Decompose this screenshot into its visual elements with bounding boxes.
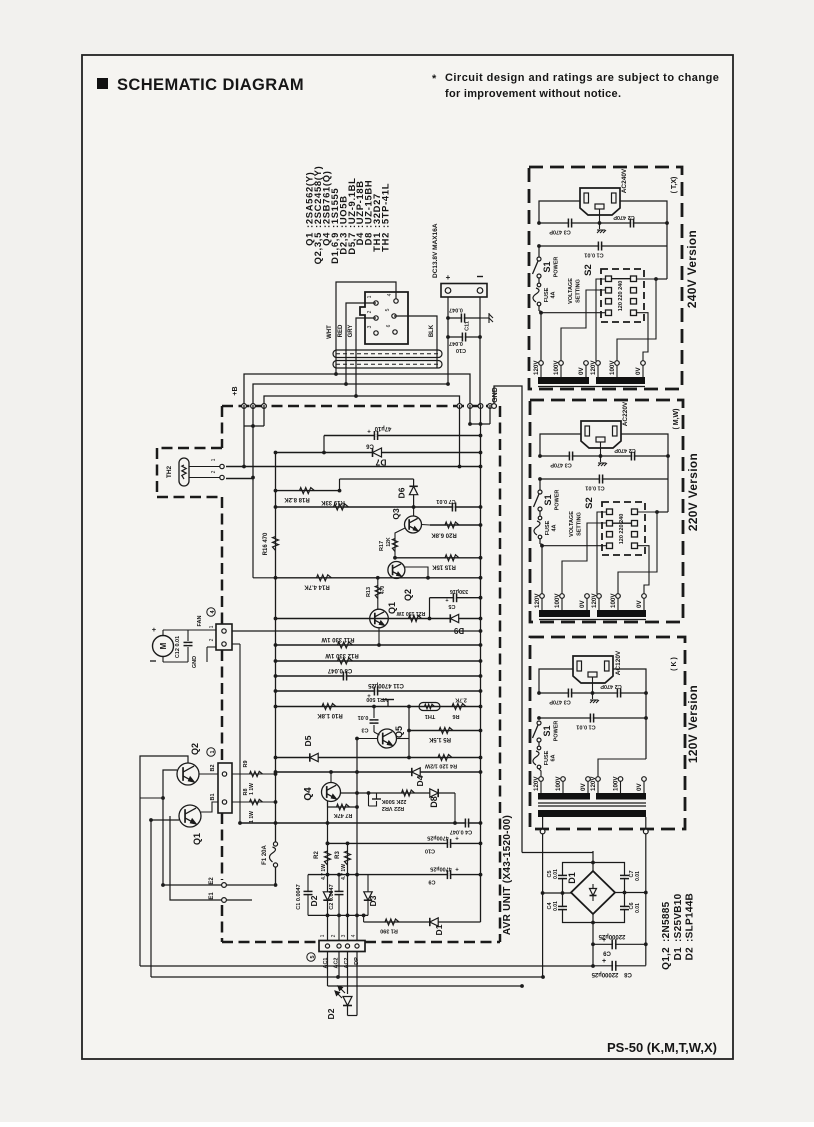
svg-text:0.047: 0.047 (449, 307, 463, 313)
diode (323, 892, 331, 900)
box (179, 458, 189, 486)
junction (346, 914, 350, 918)
wire (613, 669, 646, 759)
switch S1 (539, 479, 541, 490)
left rail (with R16 and F1) (275, 452, 277, 842)
junction (354, 394, 358, 398)
svg-text:120V: 120V (590, 360, 597, 375)
resistor (182, 465, 186, 479)
transistor (388, 562, 405, 579)
svg-text:R5 1.5K: R5 1.5K (428, 736, 451, 742)
capacitor C1 0.01 (590, 714, 593, 723)
capacitor (612, 961, 616, 971)
junction (479, 643, 483, 647)
junction (655, 510, 659, 514)
wire (539, 201, 580, 223)
svg-text:D1: D1 (567, 872, 577, 884)
junction (591, 942, 595, 946)
box (606, 288, 612, 294)
svg-text:3: 3 (367, 325, 373, 328)
frame ground symbol (480, 317, 489, 319)
junction (274, 821, 278, 825)
header square bullet (97, 78, 108, 89)
svg-text:2: 2 (209, 638, 215, 641)
box (607, 509, 613, 515)
box (588, 672, 597, 677)
AC inlet (581, 421, 621, 448)
capacitor (304, 891, 313, 894)
svg-text:1 1W: 1 1W (249, 783, 255, 795)
wire WHT (336, 282, 396, 374)
svg-text:D5: D5 (303, 735, 313, 746)
wire (540, 434, 581, 456)
junction (665, 221, 669, 225)
svg-text:POWER: POWER (555, 490, 561, 511)
svg-text:PS-50 (K,M,T,W,X): PS-50 (K,M,T,W,X) (607, 1040, 717, 1055)
svg-text:R3: R3 (335, 851, 341, 859)
svg-text:0V: 0V (578, 367, 585, 375)
svg-text:DC13.8V MAX16A: DC13.8V MAX16A (432, 223, 439, 278)
wire line R1 D1 (364, 921, 481, 923)
wire line VR1 TH1 R6 (276, 706, 481, 708)
box (584, 193, 589, 203)
resistor R21 (409, 616, 422, 622)
wire from transformer (542, 834, 544, 977)
svg-text:FUSE: FUSE (545, 520, 551, 535)
wire TH2 pin1 line (226, 466, 481, 468)
wire (395, 528, 405, 558)
capacitor C5 330u16 (453, 593, 456, 602)
wire rail to pin3 (with R3) (347, 843, 349, 940)
junction (591, 861, 595, 865)
connector pin (374, 331, 378, 335)
junction (251, 424, 255, 428)
terminal circle on AVR top edge (468, 404, 473, 409)
box (613, 426, 618, 436)
junction (326, 842, 330, 846)
capacitor C7 0.01 (620, 875, 629, 878)
svg-text:4.7 1W: 4.7 1W (321, 864, 327, 880)
svg-text:4A: 4A (552, 524, 558, 531)
resistor (345, 851, 351, 865)
capacitor C2 470P (617, 689, 620, 698)
capacitor C9 (447, 870, 450, 879)
svg-text:R21 150 1W: R21 150 1W (396, 610, 425, 616)
svg-text:+: + (446, 273, 451, 282)
svg-text:4700µ25: 4700µ25 (427, 834, 449, 840)
wires from fan connector into AVR (232, 643, 240, 645)
transformer terminal (540, 594, 545, 599)
svg-text:VOLTAGE: VOLTAGE (569, 511, 575, 537)
junction (479, 451, 483, 455)
capacitor C5 0.01 (558, 875, 567, 878)
svg-text:5: 5 (310, 955, 316, 958)
junction (479, 576, 483, 580)
junction (479, 617, 483, 621)
wire line R11 (276, 644, 481, 646)
svg-text:R6: R6 (452, 713, 459, 719)
svg-text:POWER: POWER (554, 721, 560, 742)
capacitor C8 22000u25 (593, 965, 646, 967)
junction (346, 842, 350, 846)
transformer terminal (560, 594, 565, 599)
wire +B feed jog (252, 481, 254, 578)
junction (644, 716, 648, 720)
capacitor C3 470P (568, 219, 571, 228)
svg-text:120 220 240: 120 220 240 (619, 514, 625, 545)
svg-text:Circuit design and ratings are: Circuit design and ratings are subject t… (445, 72, 719, 84)
capacitor (370, 720, 379, 723)
wire D6 to Q3 (413, 507, 415, 516)
box (602, 502, 645, 555)
junction (274, 705, 278, 709)
wire (522, 852, 593, 854)
capacitor C6 (374, 431, 377, 440)
svg-text:S1: S1 (542, 261, 552, 272)
svg-text:C11 4700µ25: C11 4700µ25 (367, 682, 403, 688)
box (585, 426, 590, 436)
svg-text:R4 120 1/2W: R4 120 1/2W (424, 763, 457, 769)
terminal circle on AVR top edge (251, 404, 256, 409)
wire (618, 512, 657, 594)
terminal (537, 721, 541, 725)
junction (355, 770, 359, 774)
transistor (370, 609, 389, 628)
wire (637, 313, 649, 361)
svg-text:+: + (455, 868, 459, 874)
svg-text:Q1: Q1 (192, 833, 202, 845)
svg-text:C3: C3 (361, 727, 368, 733)
TH2 pin2 (220, 475, 224, 479)
wire (617, 279, 656, 361)
box (333, 350, 442, 358)
capacitor C2 0.0047 (338, 875, 340, 940)
svg-text:R7 47K: R7 47K (334, 812, 353, 818)
transformer terminal (539, 777, 544, 782)
wire GRY (356, 318, 376, 396)
junction (274, 772, 278, 776)
fuse 6A (538, 742, 540, 747)
capacitor (184, 642, 193, 645)
resistor R18 (300, 488, 315, 494)
terminal (537, 274, 541, 278)
svg-text:TH2: TH2 (380, 232, 391, 252)
capacitor C1 0.01 (598, 242, 601, 251)
svg-text::SLP144B: :SLP144B (685, 893, 696, 942)
svg-text:R2: R2 (314, 851, 320, 859)
transformer terminal (596, 361, 601, 366)
svg-text:100V: 100V (609, 360, 616, 375)
svg-text:C1 0.01: C1 0.01 (584, 252, 603, 258)
terminal E2 (222, 883, 227, 888)
connector pin (393, 330, 397, 334)
box (216, 624, 232, 650)
junction (355, 737, 359, 741)
svg-text:Q5: Q5 (394, 726, 404, 738)
terminal (273, 842, 277, 846)
AC inlet 120V (573, 656, 613, 683)
secondary bar (538, 810, 646, 817)
svg-text:220V Version: 220V Version (686, 453, 700, 531)
svg-text:D1: D1 (434, 924, 444, 935)
junction (537, 221, 541, 225)
capacitor C4 0.01 (558, 906, 567, 909)
svg-text:4: 4 (387, 293, 393, 296)
svg-text:S1: S1 (543, 494, 553, 505)
svg-text:0.01: 0.01 (358, 714, 369, 720)
wires below connector (327, 952, 329, 987)
junction (458, 465, 462, 469)
wire line R19 (276, 506, 481, 508)
svg-text:WHT: WHT (327, 325, 333, 339)
wire line D4 (276, 771, 481, 773)
svg-text::2N5885: :2N5885 (661, 901, 672, 942)
resistor R19 (334, 504, 349, 510)
connector pin (374, 301, 378, 305)
right bus (480, 434, 482, 922)
junction (479, 422, 483, 426)
svg-text:C1 0.0047: C1 0.0047 (296, 884, 302, 909)
svg-text:R17: R17 (379, 541, 385, 551)
resistor (375, 586, 380, 599)
wire (598, 759, 646, 777)
terminal (538, 490, 542, 494)
junction (479, 523, 483, 527)
bridge rectifier D1 (571, 871, 615, 914)
junction (376, 576, 380, 580)
minus sign (477, 276, 483, 278)
resistor R11 (338, 642, 353, 648)
transformer terminal (616, 594, 621, 599)
transistor (177, 763, 199, 785)
wire (592, 914, 594, 966)
box (632, 532, 638, 538)
junction (274, 674, 278, 678)
svg-text:TH1: TH1 (425, 713, 435, 719)
junction (251, 476, 255, 480)
transformer primary bars 120V (538, 793, 590, 800)
junction (326, 842, 330, 846)
wire line C6 (324, 435, 481, 437)
junction (446, 316, 450, 320)
box (631, 276, 637, 282)
junction (644, 691, 648, 695)
svg-text:1 1W: 1 1W (249, 811, 255, 823)
svg-text:C7 0.01: C7 0.01 (436, 498, 455, 504)
svg-text:SETTING: SETTING (577, 512, 583, 536)
core lines (538, 802, 646, 804)
line C1 120V (539, 717, 646, 719)
junction (479, 705, 483, 709)
junction (539, 311, 543, 315)
svg-text:1: 1 (209, 625, 215, 628)
terminal + (445, 288, 451, 294)
svg-text:C4 0.047: C4 0.047 (450, 829, 472, 835)
wire rail to pin1 (with R2) (327, 801, 329, 940)
resistor (273, 537, 279, 551)
junction (407, 705, 411, 709)
svg-text:R10 1.8K: R10 1.8K (317, 712, 343, 718)
svg-text:C10: C10 (425, 847, 435, 853)
box (218, 763, 232, 813)
terminal circle on AVR top edge (457, 404, 462, 409)
transformer terminal (642, 777, 647, 782)
wire Q4 top (330, 772, 332, 783)
diode D5 (310, 753, 318, 761)
svg-text:FAN: FAN (197, 615, 203, 626)
junction (407, 756, 411, 760)
terminal E1 (222, 898, 227, 903)
box (605, 661, 610, 671)
wire fan + line (232, 630, 481, 632)
svg-text:120V Version: 120V Version (686, 685, 700, 763)
wire E1 left (170, 816, 222, 900)
svg-text:C2 470P: C2 470P (600, 683, 622, 689)
svg-text:S1: S1 (542, 725, 552, 736)
svg-text:TH2: TH2 (166, 465, 173, 478)
transformer terminal (585, 594, 590, 599)
svg-text:GND: GND (492, 387, 499, 403)
wire (405, 567, 428, 578)
wire jog to D6 (340, 478, 414, 480)
junction (666, 454, 670, 458)
junction (329, 770, 333, 774)
junction (479, 821, 483, 825)
wire line R14 (276, 577, 481, 579)
svg-text:Q1,2: Q1,2 (661, 947, 672, 970)
junction (336, 975, 340, 979)
junction (468, 422, 472, 426)
junction (479, 505, 483, 509)
svg-text:2.7K: 2.7K (455, 697, 467, 703)
svg-text:Q4: Q4 (303, 787, 314, 801)
box (606, 299, 612, 305)
box (596, 437, 605, 442)
junction (479, 689, 483, 693)
AVR unit dashed outline (222, 405, 500, 408)
resistor R14 (317, 575, 332, 581)
capacitor C3 (373, 707, 375, 719)
svg-text:for improvement without notice: for improvement without notice. (445, 88, 621, 100)
svg-text:R18 8.2K: R18 8.2K (284, 496, 310, 502)
svg-text:RED: RED (338, 324, 344, 337)
junction (274, 643, 278, 647)
svg-text:C12 0.01: C12 0.01 (175, 636, 181, 658)
6-pin connector P1 (360, 292, 408, 344)
wire line C10 (328, 842, 481, 844)
svg-text:1: 1 (320, 934, 326, 937)
S2 wiring (542, 545, 607, 547)
svg-text:C8 0.047: C8 0.047 (327, 667, 352, 673)
wire (562, 523, 607, 594)
wire line R4 (276, 757, 481, 759)
junction (274, 800, 278, 804)
terminal (537, 738, 541, 742)
wire line R5 (409, 730, 481, 732)
top parts list (304, 166, 391, 265)
wire (539, 669, 573, 693)
box (441, 284, 487, 298)
transformer terminal (596, 777, 601, 782)
terminal circle on AVR top edge (262, 404, 267, 409)
bridge inner diode symbol (592, 884, 594, 901)
terminal - (477, 288, 483, 294)
resistor (250, 771, 263, 776)
box (606, 276, 612, 282)
resistor R8 (232, 801, 276, 803)
wire (561, 290, 606, 361)
capacitor C4 (465, 819, 468, 828)
wire (645, 834, 647, 966)
wire RED (346, 303, 376, 384)
junction (538, 454, 542, 458)
junction (346, 873, 350, 877)
junction (654, 277, 658, 281)
svg-text:120V: 120V (533, 360, 540, 375)
wire jog (323, 436, 325, 453)
svg-text:0V: 0V (579, 600, 586, 608)
wire line D7 (276, 452, 481, 454)
junction (644, 942, 648, 946)
junction (274, 883, 278, 887)
wire line D9 (276, 618, 481, 620)
wire to TH2 pin1 (243, 405, 245, 467)
svg-text:R13: R13 (366, 587, 372, 597)
junction (479, 873, 483, 877)
junction (541, 975, 545, 979)
svg-text:100V: 100V (554, 593, 561, 608)
exit terminal (540, 829, 545, 834)
line C1 (540, 478, 668, 480)
junction (479, 629, 483, 633)
junction (337, 914, 341, 918)
svg-text:C11: C11 (465, 321, 471, 331)
capacitor C1 0.0047 (307, 875, 309, 916)
box (607, 521, 613, 527)
terminal circle on AVR top edge (488, 404, 493, 409)
svg-text:120V: 120V (533, 776, 540, 791)
resistor R13 470 (377, 578, 379, 609)
transformer terminal (641, 361, 646, 366)
junction (274, 689, 278, 693)
junction (412, 505, 416, 509)
svg-text:1: 1 (367, 295, 373, 298)
box (612, 193, 617, 203)
transformer core lines (539, 619, 646, 621)
terminal (538, 516, 542, 520)
terminal (538, 535, 542, 539)
wire jog (429, 598, 431, 619)
junction (478, 335, 482, 339)
svg-text:C2 470P: C2 470P (614, 447, 636, 453)
capacitor (335, 891, 344, 894)
svg-text::5TP-41L: :5TP-41L (380, 183, 391, 228)
svg-text:240V Version: 240V Version (685, 230, 699, 308)
fuse 4A (539, 511, 541, 517)
svg-text:100V: 100V (553, 360, 560, 375)
junction (446, 382, 450, 386)
S2 wiring (541, 312, 606, 314)
svg-text:B1: B1 (210, 793, 216, 800)
svg-text:SETTING: SETTING (576, 279, 582, 303)
svg-text:+B: +B (232, 386, 239, 395)
fan motor M (153, 636, 174, 657)
resistor R7 47K (327, 801, 329, 807)
junction (479, 434, 483, 438)
junction (161, 796, 165, 800)
junction (591, 921, 595, 925)
svg-text:0V: 0V (636, 783, 643, 791)
